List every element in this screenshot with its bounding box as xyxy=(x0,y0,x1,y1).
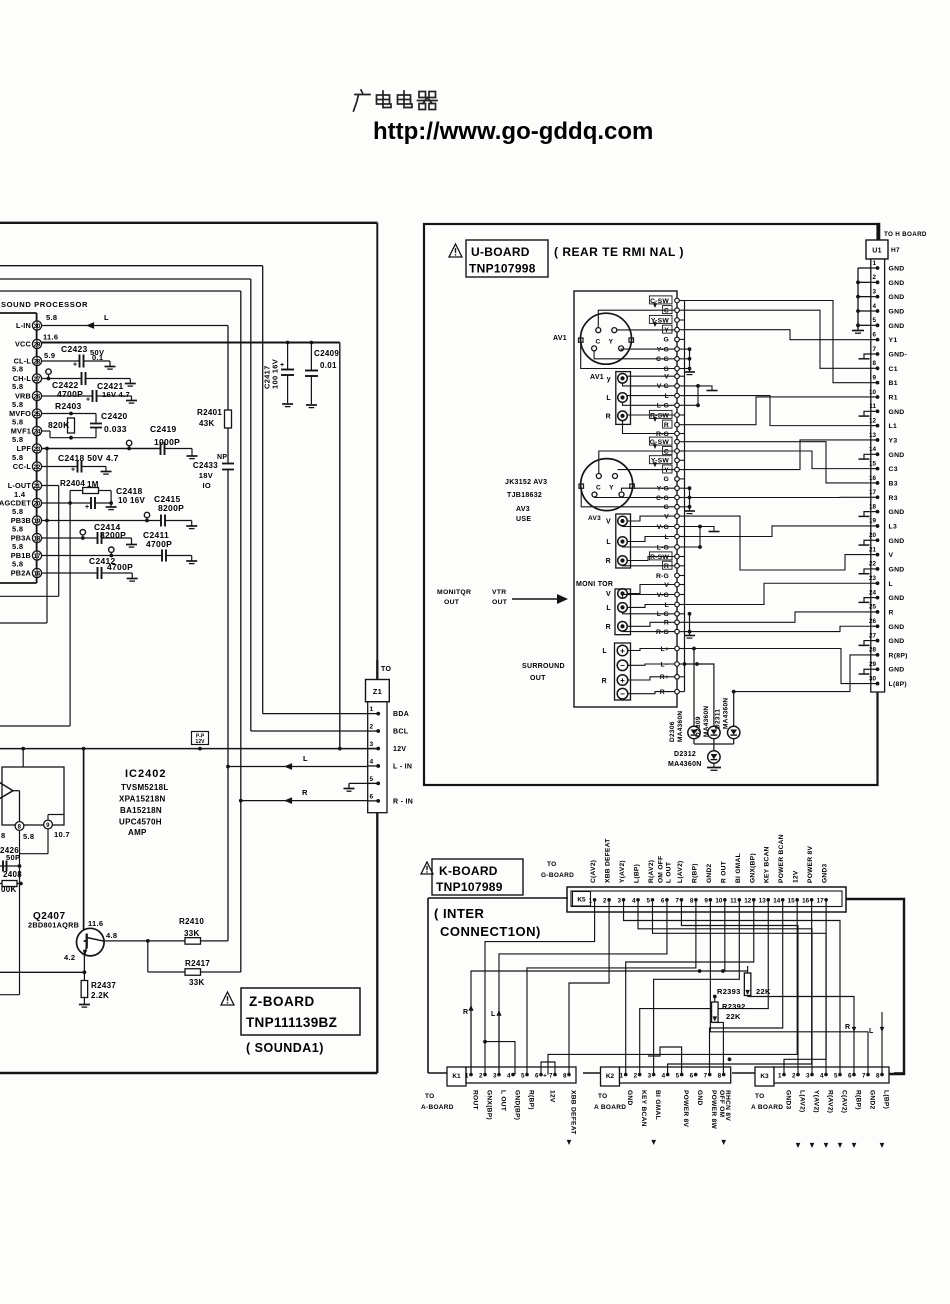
svg-text:TO: TO xyxy=(381,666,391,673)
resistor R2410 33K xyxy=(185,938,201,945)
svg-text:A BOARD: A BOARD xyxy=(594,1104,626,1111)
terminal L-G at y613 xyxy=(677,613,685,615)
svg-text:14: 14 xyxy=(869,446,877,453)
svg-text:R: R xyxy=(302,788,308,797)
connector U1 pin 3 GND xyxy=(871,296,878,298)
svg-text:L OUT: L OUT xyxy=(665,862,672,883)
svg-text:CC-L: CC-L xyxy=(13,462,32,471)
svg-text:U-BOARD: U-BOARD xyxy=(471,245,530,259)
terminal R− at y691 xyxy=(677,691,685,693)
svg-text:TNP107989: TNP107989 xyxy=(436,880,503,894)
wire V to U1 pin21 xyxy=(685,516,872,570)
svg-text:L-IN: L-IN xyxy=(16,321,31,330)
svg-text:+: + xyxy=(73,362,77,369)
wire Y1 to U1 pin6 xyxy=(685,330,872,340)
svg-text:12: 12 xyxy=(744,898,752,905)
terminal R-SW at y415 xyxy=(677,414,685,416)
wire R to U1 pin25 xyxy=(685,612,872,622)
wire from pin21 L-OUT xyxy=(42,485,59,487)
terminal C at y310 xyxy=(677,309,685,311)
svg-text:LPF: LPF xyxy=(17,444,32,453)
svg-text:50P: 50P xyxy=(6,853,20,862)
terminal Y-SW at y320 xyxy=(677,319,685,321)
svg-text:GND: GND xyxy=(889,509,905,516)
svg-text:5.8: 5.8 xyxy=(12,400,23,409)
terminal L-G at y547 xyxy=(677,546,685,548)
connector U1 pin 4 GND xyxy=(871,310,878,312)
svg-text:R2417: R2417 xyxy=(185,959,210,968)
svg-text:4700P: 4700P xyxy=(107,562,133,572)
svg-text:L - IN: L - IN xyxy=(393,763,412,770)
svg-text:10.7: 10.7 xyxy=(54,830,70,839)
connector U1 pin 25 R xyxy=(871,611,878,613)
svg-text:VCC: VCC xyxy=(15,340,32,349)
connector Z1 pin 6 xyxy=(368,800,379,802)
wire emitter Q2407 xyxy=(83,954,85,973)
svg-text:5: 5 xyxy=(834,1073,838,1080)
svg-text:C2418: C2418 xyxy=(116,486,143,496)
svg-text:TNP111139BZ: TNP111139BZ xyxy=(246,1015,337,1030)
terminal R-SW at y556 xyxy=(677,556,685,558)
svg-text:4: 4 xyxy=(662,1073,666,1080)
svg-text:8: 8 xyxy=(563,1073,567,1080)
op-amp IC2402 triangle xyxy=(0,779,13,802)
svg-text:R(BP): R(BP) xyxy=(528,1090,535,1110)
svg-text:14: 14 xyxy=(773,898,781,905)
terminal V at y516 xyxy=(677,515,685,517)
svg-text:7: 7 xyxy=(704,1073,708,1080)
IC pin 16 PB2A xyxy=(32,568,41,577)
svg-text:2408: 2408 xyxy=(3,870,22,879)
resistor R2404 1M xyxy=(69,491,71,504)
svg-text:POWER BCAN: POWER BCAN xyxy=(778,834,785,883)
svg-text:L-G: L-G xyxy=(657,544,669,551)
wire K5 pin 7 to level 925 xyxy=(681,900,798,1075)
Z-board bottom border wire xyxy=(0,1072,377,1075)
wire base Q2407 xyxy=(83,749,85,941)
connector U1 pin 30 L(8P) xyxy=(871,683,878,685)
svg-text:AV1: AV1 xyxy=(590,374,604,381)
IC pin 28 CL-L xyxy=(32,356,41,365)
svg-text:11: 11 xyxy=(869,403,876,410)
svg-text:3: 3 xyxy=(806,1073,810,1080)
svg-text:Y: Y xyxy=(664,467,669,474)
wire K5 pin 1 to level 941 xyxy=(485,900,595,1075)
terminal R-G at y433 xyxy=(677,433,685,435)
wire K1 bracket pins 6-7 12V xyxy=(541,1062,555,1075)
wires AV3 RCA to terminals xyxy=(627,516,675,521)
U-board border box xyxy=(424,224,878,785)
connector Z1 pin 3 xyxy=(368,748,379,750)
terminal G at y478 xyxy=(677,478,685,480)
svg-text:21: 21 xyxy=(869,546,877,553)
svg-text:1: 1 xyxy=(465,1073,469,1080)
svg-text:L: L xyxy=(303,754,308,763)
svg-text:R: R xyxy=(602,678,607,685)
wire C3 to U1 pin15 xyxy=(685,451,872,469)
resistor R2403 820K and capacitor C2420 loop xyxy=(42,413,96,415)
svg-text:R2403: R2403 xyxy=(55,401,82,411)
svg-text:3: 3 xyxy=(370,741,374,748)
svg-text:R - IN: R - IN xyxy=(393,798,413,805)
svg-text:7: 7 xyxy=(549,1073,553,1080)
svg-text:MA4360N: MA4360N xyxy=(723,698,730,729)
svg-text:IC2402: IC2402 xyxy=(125,768,166,780)
svg-text:L: L xyxy=(606,395,611,402)
connector U1 pin 17 R3 xyxy=(871,496,878,498)
connector U1 pin 23 L xyxy=(871,582,878,584)
IC pin 26 VRB xyxy=(32,391,41,400)
svg-text:L(8P): L(8P) xyxy=(889,681,908,688)
svg-text:ROUT: ROUT xyxy=(472,1090,479,1110)
svg-text:GNX(BP): GNX(BP) xyxy=(486,1090,493,1120)
svg-text:C: C xyxy=(664,308,669,315)
svg-text:GND: GND xyxy=(696,1090,703,1106)
svg-text:5.8: 5.8 xyxy=(46,313,57,322)
connector K5 pin 11 xyxy=(738,898,742,902)
connector U1 pin 10 R1 xyxy=(871,396,878,398)
connector U1 pin 5 GND xyxy=(871,324,878,326)
wire K5 pin 8 to level 967 xyxy=(527,900,696,1075)
wire 12V rail xyxy=(0,748,378,750)
svg-text:8: 8 xyxy=(1,831,5,840)
svg-text:24: 24 xyxy=(869,589,877,596)
svg-text:8200P: 8200P xyxy=(100,530,126,540)
svg-text:L(BP): L(BP) xyxy=(634,864,641,883)
connector U1 pin 11 GND xyxy=(871,410,878,412)
wire L+ to U1 pin30 L(8P) xyxy=(692,647,696,651)
svg-text:4.2: 4.2 xyxy=(64,953,75,962)
svg-text:POWER 8W: POWER 8W xyxy=(710,1090,717,1130)
IC pin column wire xyxy=(36,318,38,578)
svg-text:BI GMAL: BI GMAL xyxy=(735,853,742,883)
svg-text:CONNECT1ON): CONNECT1ON) xyxy=(440,924,541,939)
svg-text:GND: GND xyxy=(889,595,905,602)
wire L+ to diode D2306 xyxy=(693,649,695,727)
svg-text:+: + xyxy=(620,676,625,685)
svg-text:9: 9 xyxy=(46,823,50,829)
svg-text:6: 6 xyxy=(690,1073,694,1080)
svg-text:5.8: 5.8 xyxy=(12,365,23,374)
IC pin 27 CH-L xyxy=(32,374,41,383)
svg-text:G-BOARD: G-BOARD xyxy=(541,872,574,879)
wire net BDA xyxy=(0,265,263,267)
transistor Q2407 xyxy=(77,928,105,956)
connector K5 pin 6 xyxy=(665,898,669,902)
mesh junction dots xyxy=(698,969,702,973)
svg-text:G: G xyxy=(664,366,670,373)
wire AGCDET xyxy=(42,502,91,504)
op-amp feedback box xyxy=(2,767,64,825)
connector K5 pin 16 xyxy=(810,898,814,902)
svg-text:4: 4 xyxy=(820,1073,824,1080)
connector U1 pin 1 GND xyxy=(871,267,878,269)
Z-board top border wire xyxy=(0,222,377,224)
svg-text:5.8: 5.8 xyxy=(23,832,34,841)
svg-text:16V 4.7: 16V 4.7 xyxy=(102,390,130,399)
wire 12V drop to Z1 xyxy=(339,343,341,749)
svg-text:0.01: 0.01 xyxy=(320,361,337,370)
svg-text:TNP107998: TNP107998 xyxy=(469,262,536,276)
terminal L at y604 xyxy=(677,604,685,606)
connector K5 label box xyxy=(573,892,591,907)
svg-text:10: 10 xyxy=(869,389,877,396)
svg-text:V: V xyxy=(606,519,611,526)
connector U1 pin 6 Y1 xyxy=(871,339,878,341)
wire K5 pin 13 to level 1008 xyxy=(640,900,769,1075)
svg-text:TO: TO xyxy=(598,1093,608,1100)
svg-text:AV3: AV3 xyxy=(516,506,530,513)
svg-text:25: 25 xyxy=(869,604,877,611)
connector Z1 box xyxy=(376,660,378,680)
svg-text:L OUT: L OUT xyxy=(500,1090,507,1111)
svg-text:C2419: C2419 xyxy=(150,424,177,434)
connector K5 pin 4 xyxy=(636,898,640,902)
svg-text:6: 6 xyxy=(370,793,374,800)
capacitor C2423 xyxy=(42,360,79,362)
wire R2393 to K3 pin6 xyxy=(748,997,854,1075)
svg-text:8200P: 8200P xyxy=(158,503,184,513)
svg-text:L: L xyxy=(665,602,669,609)
svg-text:R2392: R2392 xyxy=(722,1002,746,1011)
svg-text:5: 5 xyxy=(676,1073,680,1080)
capacitor C2409 xyxy=(310,343,312,371)
svg-text:H7: H7 xyxy=(891,247,900,254)
svg-text:2: 2 xyxy=(603,898,607,905)
svg-text:MONITQR: MONITQR xyxy=(437,589,471,596)
svg-text:+: + xyxy=(85,504,89,511)
svg-text:C: C xyxy=(596,339,601,346)
svg-text:5.8: 5.8 xyxy=(12,435,23,444)
svg-text:GND: GND xyxy=(889,624,905,631)
svg-text:GND: GND xyxy=(626,1090,633,1106)
svg-text:3: 3 xyxy=(618,898,622,905)
connector Z1 pin 2 xyxy=(368,730,379,732)
wire diode bottoms xyxy=(693,739,695,744)
wire K5 pin 15 to level 1054 xyxy=(548,900,797,1075)
connector K5 pin 14 xyxy=(781,898,785,902)
svg-text:L-G: L-G xyxy=(657,611,669,618)
svg-text:9: 9 xyxy=(872,374,876,381)
test point pin27 xyxy=(46,369,51,374)
svg-text:4: 4 xyxy=(872,303,876,310)
svg-text:L-OUT: L-OUT xyxy=(8,481,32,490)
svg-text:KEY BCAN: KEY BCAN xyxy=(764,846,771,883)
resistor R2401 xyxy=(225,410,232,428)
svg-text:GND: GND xyxy=(889,452,905,459)
svg-text:POWER 8V: POWER 8V xyxy=(807,845,814,883)
svg-text:GND3: GND3 xyxy=(822,863,829,883)
svg-text:−: − xyxy=(620,661,625,670)
svg-text:L: L xyxy=(665,534,669,541)
svg-text:C-SW: C-SW xyxy=(650,298,669,305)
svg-text:2: 2 xyxy=(370,724,374,731)
svg-text:2: 2 xyxy=(634,1073,638,1080)
svg-text:VTR: VTR xyxy=(492,589,507,596)
svg-text:PB2A: PB2A xyxy=(11,569,32,578)
svg-text:L-G: L-G xyxy=(657,403,669,410)
svg-text:R1: R1 xyxy=(889,394,898,401)
wire K2 pin5 stub xyxy=(648,1047,682,1075)
terminal L+ at y648 xyxy=(677,648,685,650)
connector K5 pin 12 xyxy=(752,898,756,902)
svg-text:23: 23 xyxy=(869,575,877,582)
svg-text:18: 18 xyxy=(869,503,877,510)
svg-text:R2393: R2393 xyxy=(717,987,741,996)
svg-text:5.8: 5.8 xyxy=(12,418,23,427)
wires AV1 RCA to terminals xyxy=(627,375,675,377)
svg-text:5: 5 xyxy=(521,1073,525,1080)
terminal Y at y469 xyxy=(677,469,685,471)
Z-board right border wire xyxy=(376,223,378,1073)
svg-text:8: 8 xyxy=(690,898,694,905)
wire C1 to U1 pin8 xyxy=(685,310,872,368)
wire R1 to U1 pin10 xyxy=(685,397,872,425)
wire K5 pin 2 to level 983 xyxy=(569,900,609,1075)
connector K1 body xyxy=(466,1067,576,1083)
svg-text:3: 3 xyxy=(872,288,876,295)
svg-text:17: 17 xyxy=(817,898,825,905)
connector U1 pin 22 GND xyxy=(871,568,878,570)
svg-text:R(BP): R(BP) xyxy=(691,863,698,883)
svg-text:6: 6 xyxy=(848,1073,852,1080)
svg-text:OFF OM: OFF OM xyxy=(718,1090,725,1118)
terminal SW arrows xyxy=(654,302,656,306)
svg-text:( INTER: ( INTER xyxy=(434,906,485,921)
svg-text:GND: GND xyxy=(889,409,905,416)
connector K5 outer box xyxy=(567,887,846,912)
svg-text:XPA15218N: XPA15218N xyxy=(119,795,166,804)
connector U1 pin 2 GND xyxy=(871,281,878,283)
svg-text:16: 16 xyxy=(802,898,810,905)
svg-text:V-G: V-G xyxy=(657,592,669,599)
connector K5 pin 3 xyxy=(622,898,626,902)
svg-text:8: 8 xyxy=(718,1073,722,1080)
terminal L at y395 xyxy=(677,395,685,397)
svg-text:G-SW: G-SW xyxy=(650,439,670,446)
connector U1 pin 18 GND xyxy=(871,511,878,513)
connector Z1 pin 1 xyxy=(368,713,379,715)
wire K5 pin 16 to level 1064 xyxy=(668,900,812,1075)
terminal bus wire xyxy=(684,301,686,692)
svg-text:MA4360N: MA4360N xyxy=(703,706,710,737)
diode D2306 xyxy=(688,726,700,738)
terminal R-G at y575 xyxy=(677,575,685,577)
svg-text:R: R xyxy=(606,413,611,420)
connector U1 pin 9 B1 xyxy=(871,382,878,384)
connector U1 pin 19 L3 xyxy=(871,525,878,527)
svg-text:GND: GND xyxy=(889,323,905,330)
terminal R-G at y631 xyxy=(677,631,685,633)
IC pin 20 AGCDET xyxy=(32,498,41,507)
svg-text:+: + xyxy=(543,1073,547,1080)
IC pin 22 CC-L xyxy=(32,462,41,471)
svg-text:Y: Y xyxy=(609,339,614,346)
svg-text:C2420: C2420 xyxy=(101,411,128,421)
svg-text:L−: L− xyxy=(660,661,669,668)
resistor R2417 33K xyxy=(147,941,149,972)
svg-text:NP: NP xyxy=(217,454,227,461)
ground cluster AV3 L-G xyxy=(685,527,701,548)
wire L to Z1 pin4 xyxy=(226,765,230,769)
svg-text:10 16V: 10 16V xyxy=(118,496,146,505)
svg-text:2: 2 xyxy=(872,274,876,281)
terminal R at y424 xyxy=(677,424,685,426)
connector U1 pin 21 V xyxy=(871,554,878,556)
svg-text:L+: L+ xyxy=(660,646,669,653)
svg-text:7: 7 xyxy=(872,346,876,353)
wire K5 pin 3 to level 920 xyxy=(624,900,840,1075)
wire op-amp output to pin8 xyxy=(13,790,20,792)
diode D2311 xyxy=(728,726,740,738)
svg-text:6: 6 xyxy=(872,331,876,338)
connector U1 body xyxy=(871,259,885,692)
svg-text:22K: 22K xyxy=(726,1012,741,1021)
svg-text:( REAR TE RMI NAL ): ( REAR TE RMI NAL ) xyxy=(554,245,684,259)
connector K2 body xyxy=(620,1067,731,1083)
wire pin9 jog xyxy=(47,815,49,821)
connector K5 pin 15 xyxy=(795,898,799,902)
svg-text:27: 27 xyxy=(869,632,877,639)
svg-text:100 16V: 100 16V xyxy=(271,359,280,389)
connector U1 pin 14 GND xyxy=(871,453,878,455)
svg-text:C2423: C2423 xyxy=(61,344,88,354)
svg-text:30: 30 xyxy=(869,675,877,682)
wire R2392 to K2 pin8 xyxy=(715,1022,724,1074)
wires MONITOR RCA to terminals xyxy=(627,585,675,594)
svg-text:IO: IO xyxy=(202,481,211,490)
wire K5 pin 14 to level 1028 xyxy=(710,900,783,1075)
svg-text:Y(AV2): Y(AV2) xyxy=(619,860,626,883)
svg-text:43K: 43K xyxy=(199,419,215,428)
wire PB3A / capacitor C2414 xyxy=(42,537,98,539)
svg-text:GND2: GND2 xyxy=(706,863,713,883)
IC pin 29 VCC xyxy=(32,339,41,348)
svg-text:L: L xyxy=(602,648,607,655)
svg-text:20: 20 xyxy=(869,532,877,539)
connector U1 pin 7 GND- xyxy=(871,353,878,355)
svg-text:R: R xyxy=(606,624,611,631)
svg-text:00K: 00K xyxy=(1,885,17,894)
svg-text:26: 26 xyxy=(869,618,877,625)
svg-text:L(AV2): L(AV2) xyxy=(799,1090,806,1113)
wire PB2A / capacitor 4700P xyxy=(42,572,98,574)
wire R arrow K1 pin1 xyxy=(470,1005,472,1075)
terminal G at y506 xyxy=(677,506,685,508)
connector U1 pin 28 R(8P) xyxy=(871,654,878,656)
svg-text:9: 9 xyxy=(704,898,708,905)
svg-text:L(BP): L(BP) xyxy=(883,1090,890,1109)
svg-text:G: G xyxy=(664,476,670,483)
DIN connector AV1 xyxy=(581,313,632,364)
terminal V-G at y385 xyxy=(677,385,685,387)
ground cluster AV1 G rows xyxy=(689,349,691,371)
svg-text:13: 13 xyxy=(869,432,877,439)
wire K5 pin 9 to level 1031 xyxy=(710,900,868,1075)
RCA jack block AV1 xyxy=(616,372,631,425)
svg-text:R(AV2): R(AV2) xyxy=(827,1090,834,1113)
wire L from pin 30 xyxy=(42,325,228,327)
svg-text:OUT: OUT xyxy=(444,599,460,606)
terminal block SURROUND xyxy=(615,643,631,700)
wire L arrow to K3 pin8 xyxy=(881,1012,883,1075)
svg-text:GND(BP): GND(BP) xyxy=(514,1090,521,1120)
svg-text:19: 19 xyxy=(869,518,877,525)
svg-text:G: G xyxy=(664,337,670,344)
svg-text:5.8: 5.8 xyxy=(12,507,23,516)
svg-text:1: 1 xyxy=(778,1073,782,1080)
svg-text:http://www.go-gddq.com: http://www.go-gddq.com xyxy=(373,118,653,145)
